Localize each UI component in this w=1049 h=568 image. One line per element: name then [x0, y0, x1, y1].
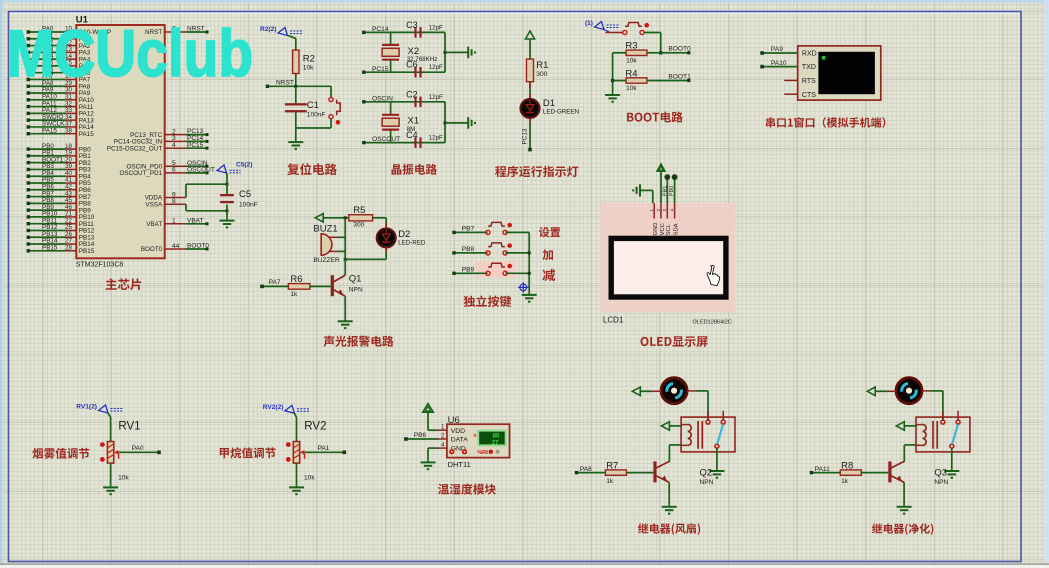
svg-text:BOOT1: BOOT1 — [668, 73, 691, 80]
svg-text:PA10: PA10 — [771, 60, 787, 67]
svg-text:100nF: 100nF — [239, 202, 258, 209]
svg-text:BUZ1: BUZ1 — [313, 224, 337, 235]
svg-text:C3: C3 — [406, 20, 418, 30]
svg-text:12pF: 12pF — [429, 135, 443, 142]
svg-text:RV1: RV1 — [118, 421, 140, 433]
svg-text:BOOT0: BOOT0 — [187, 243, 209, 250]
svg-text:RTS: RTS — [802, 78, 816, 85]
svg-text:OSCIN: OSCIN — [372, 95, 393, 102]
svg-text:%RH: %RH — [477, 450, 490, 456]
svg-text:C1: C1 — [307, 100, 319, 111]
svg-text:SCL: SCL — [666, 223, 672, 235]
svg-text:27: 27 — [492, 439, 499, 446]
svg-text:100nF: 100nF — [307, 112, 326, 119]
svg-text:C5: C5 — [239, 189, 251, 200]
svg-text:PA9: PA9 — [771, 46, 783, 53]
svg-text:VDD: VDD — [451, 428, 465, 435]
svg-text:PB6: PB6 — [414, 432, 427, 439]
svg-text:PC15: PC15 — [187, 142, 204, 149]
svg-text:PC15-OSC32_OUT: PC15-OSC32_OUT — [107, 145, 162, 152]
svg-text:STM32F103C8: STM32F103C8 — [76, 261, 124, 268]
svg-text:10k: 10k — [626, 85, 637, 92]
svg-text:VCC: VCC — [660, 223, 666, 235]
svg-text:PA15: PA15 — [79, 131, 94, 138]
svg-text:PB1: PB1 — [662, 186, 668, 196]
svg-text:PB8: PB8 — [462, 246, 475, 253]
svg-text:PA0: PA0 — [132, 445, 144, 452]
svg-text:1k: 1k — [290, 291, 298, 298]
svg-text:10k: 10k — [626, 58, 637, 65]
svg-text:>: > — [473, 433, 477, 439]
svg-text:TXD: TXD — [802, 64, 816, 71]
svg-text:1k: 1k — [606, 478, 614, 485]
svg-text:BOOT0: BOOT0 — [141, 246, 163, 253]
svg-text:(1): (1) — [585, 20, 593, 27]
svg-text:12pF: 12pF — [429, 25, 443, 32]
svg-text:C5(2): C5(2) — [236, 162, 253, 169]
svg-text:RXD: RXD — [802, 51, 817, 58]
svg-text:PB15: PB15 — [42, 245, 58, 252]
svg-text:OSCOUT: OSCOUT — [372, 136, 400, 143]
svg-text:NRST: NRST — [276, 79, 294, 86]
svg-text:OSCOUT_PD1: OSCOUT_PD1 — [119, 170, 162, 177]
svg-text:R2: R2 — [303, 54, 315, 65]
svg-text:PB9: PB9 — [462, 267, 475, 274]
svg-text:D1: D1 — [543, 98, 555, 109]
svg-text:28: 28 — [65, 245, 73, 252]
svg-text:PC13: PC13 — [522, 128, 529, 144]
svg-text:R1: R1 — [536, 60, 548, 71]
svg-text:2: 2 — [441, 432, 445, 439]
svg-text:R7: R7 — [606, 460, 618, 471]
svg-text:PA15: PA15 — [42, 127, 57, 134]
svg-text:R6: R6 — [290, 274, 302, 285]
svg-text:VBAT: VBAT — [146, 221, 162, 228]
svg-text:PA7: PA7 — [269, 279, 281, 286]
svg-text:R8: R8 — [841, 460, 853, 471]
svg-text:DATA: DATA — [451, 437, 469, 444]
svg-text:BOOT0: BOOT0 — [668, 46, 691, 53]
svg-text:NPN: NPN — [700, 479, 714, 486]
svg-text:BUZZER: BUZZER — [313, 257, 340, 264]
svg-text:32.768KHz: 32.768KHz — [407, 56, 438, 63]
svg-text:GND: GND — [653, 223, 659, 236]
svg-text:MCUclub: MCUclub — [7, 16, 253, 90]
svg-text:10k: 10k — [118, 475, 129, 482]
svg-text:OLED12864I2C: OLED12864I2C — [692, 320, 732, 326]
svg-text:R2(2): R2(2) — [260, 26, 277, 33]
svg-text:PA11: PA11 — [815, 466, 830, 473]
svg-text:RV2: RV2 — [304, 421, 326, 433]
svg-text:PB15: PB15 — [79, 248, 95, 255]
svg-text:300: 300 — [353, 222, 364, 229]
svg-text:10k: 10k — [303, 65, 314, 72]
svg-text:PB0: PB0 — [669, 186, 675, 196]
svg-text:4: 4 — [441, 442, 445, 449]
svg-text:PA8: PA8 — [580, 466, 592, 473]
svg-text:LCD1: LCD1 — [603, 316, 624, 325]
svg-text:RV2(2): RV2(2) — [263, 404, 284, 411]
svg-text:PB7: PB7 — [462, 226, 475, 233]
svg-text:D2: D2 — [398, 229, 410, 240]
svg-text:RV1(2): RV1(2) — [76, 404, 97, 411]
svg-text:LED-RED: LED-RED — [398, 240, 426, 247]
svg-text:12pF: 12pF — [429, 64, 443, 71]
svg-text:SDA: SDA — [673, 223, 679, 235]
svg-text:VSSA: VSSA — [145, 201, 163, 208]
svg-text:10k: 10k — [304, 475, 315, 482]
svg-text:NPN: NPN — [349, 286, 363, 293]
svg-text:Q3: Q3 — [934, 468, 947, 479]
svg-text:4: 4 — [172, 142, 176, 149]
svg-text:1: 1 — [172, 218, 176, 225]
svg-text:R3: R3 — [625, 41, 637, 52]
svg-text:C2: C2 — [406, 89, 418, 99]
svg-text:R5: R5 — [353, 205, 365, 216]
svg-text:LED-GREEN: LED-GREEN — [543, 109, 579, 116]
svg-text:Q2: Q2 — [700, 468, 713, 479]
svg-text:8M: 8M — [407, 126, 416, 133]
svg-text:CTS: CTS — [802, 92, 816, 99]
svg-text:12pF: 12pF — [429, 94, 443, 101]
svg-text:NPN: NPN — [934, 479, 948, 486]
svg-text:6: 6 — [172, 167, 176, 174]
svg-text:VBAT: VBAT — [187, 217, 204, 224]
svg-text:PC15: PC15 — [372, 66, 389, 73]
svg-text:38: 38 — [65, 127, 73, 134]
svg-text:1k: 1k — [841, 478, 849, 485]
svg-text:PA1: PA1 — [318, 445, 330, 452]
svg-text:8: 8 — [172, 198, 176, 205]
svg-text:300: 300 — [536, 71, 547, 78]
svg-text:Q1: Q1 — [349, 273, 362, 284]
svg-text:1: 1 — [441, 424, 445, 431]
svg-text:R4: R4 — [625, 68, 637, 79]
svg-text:PC14: PC14 — [372, 26, 389, 33]
svg-text:DHT11: DHT11 — [448, 460, 471, 469]
svg-text:44: 44 — [172, 243, 180, 250]
svg-text:OSCOUT: OSCOUT — [187, 167, 215, 174]
